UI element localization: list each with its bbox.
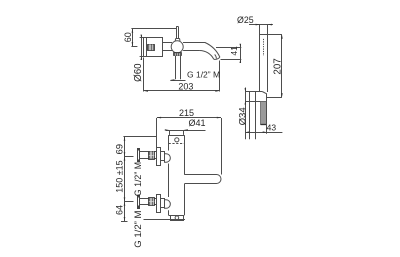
svg-text:Ø34: Ø34	[237, 107, 248, 126]
svg-text:203: 203	[178, 81, 193, 91]
svg-text:60: 60	[123, 32, 133, 42]
svg-text:215: 215	[179, 108, 194, 118]
svg-text:64: 64	[114, 205, 124, 215]
svg-text:41: 41	[229, 46, 239, 56]
svg-text:43: 43	[267, 123, 277, 133]
svg-text:69: 69	[114, 144, 125, 155]
svg-text:150 ±15: 150 ±15	[114, 160, 124, 192]
svg-text:Ø41: Ø41	[188, 118, 205, 128]
svg-text:G 1/2” M: G 1/2” M	[187, 69, 220, 79]
svg-text:207: 207	[272, 58, 283, 74]
svg-text:Ø25: Ø25	[237, 15, 254, 25]
svg-text:G 1/2” M: G 1/2” M	[133, 210, 144, 247]
svg-text:Ø60: Ø60	[133, 63, 144, 82]
svg-text:G 1/2” M: G 1/2” M	[133, 162, 143, 196]
